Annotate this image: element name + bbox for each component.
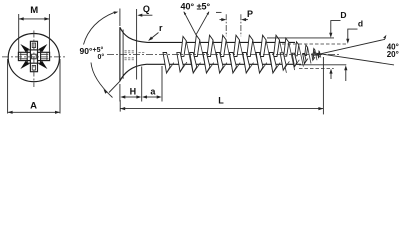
svg-text:20°: 20° — [387, 50, 399, 59]
thread blade 1 — [177, 36, 193, 72]
crest envelope top reference line — [267, 37, 334, 39]
label plus 5 deg — [93, 46, 104, 54]
dimension L line with arrows — [120, 107, 323, 110]
label d — [358, 19, 363, 29]
label H — [130, 86, 137, 96]
dimension M extension lines — [19, 14, 50, 52]
root bottom reference line — [299, 64, 346, 66]
thread root top line — [148, 41, 296, 43]
svg-text:A: A — [30, 100, 37, 111]
front view vertical centerline — [33, 31, 35, 88]
dimension a extension line — [161, 66, 163, 102]
svg-text:90°: 90° — [80, 46, 93, 56]
thread blade taper 2 — [292, 42, 303, 67]
recess slot inner lines — [19, 53, 48, 61]
head angle lower arc — [91, 63, 113, 98]
head angle upper arc — [84, 11, 119, 44]
recess wing lower-left — [20, 61, 29, 69]
thread run-out blade — [163, 53, 174, 74]
label D — [340, 10, 346, 20]
dimension P arrows — [220, 18, 248, 21]
recess wing upper-right — [39, 44, 48, 52]
dimension D bottom arrow — [329, 69, 332, 79]
svg-text:a: a — [150, 86, 156, 96]
dimension M line with arrows — [19, 17, 50, 20]
dimension A extension lines — [8, 59, 60, 114]
svg-text:L: L — [218, 96, 224, 106]
thread blade taper 1 — [280, 38, 294, 70]
dimension Q extension line — [119, 9, 121, 27]
label 20 deg tip — [387, 50, 399, 59]
head face inner line — [122, 30, 124, 79]
tip upper angle line — [314, 35, 387, 56]
thread blade 2 — [190, 35, 207, 73]
dimension A line with arrows — [8, 111, 60, 114]
svg-text:d: d — [358, 19, 363, 29]
label P — [247, 9, 253, 19]
svg-text:0°: 0° — [98, 53, 105, 61]
label A — [30, 100, 37, 111]
thread blade 3 — [203, 35, 220, 73]
dimension P lines — [226, 14, 241, 36]
dimension d leader and top arrow — [346, 29, 357, 44]
recess hidden dashes — [125, 51, 146, 60]
thread blade 6 — [243, 35, 260, 73]
dimension a arrows — [142, 95, 162, 98]
fillet r leader line — [148, 33, 158, 41]
thread blade taper 4 — [312, 49, 317, 61]
dimension Q arrow — [137, 14, 152, 17]
label Q — [143, 4, 150, 14]
thread blade taper 5 — [318, 51, 321, 57]
head face line — [119, 27, 121, 81]
svg-text:M: M — [30, 5, 38, 16]
recess center seat square — [32, 54, 37, 59]
dimension L left extension line — [119, 100, 121, 112]
tip lower angle line — [314, 53, 395, 65]
svg-text:Q: Q — [143, 4, 150, 14]
svg-text:r: r — [159, 23, 163, 33]
label 40 deg pm 5 — [181, 1, 211, 11]
front view horizontal centerline — [2, 56, 65, 58]
dimension H extension lines — [120, 67, 142, 102]
recess horizontal slot — [18, 52, 49, 60]
thread blade taper 3 — [303, 45, 311, 64]
thread blade 7 — [256, 35, 273, 73]
dimension d bottom arrow — [344, 65, 347, 81]
thread blade 5 — [229, 35, 246, 73]
screw axis centerline — [107, 54, 339, 56]
recess vertical slot — [30, 41, 37, 71]
label r — [159, 23, 163, 33]
dimension H arrows — [120, 95, 141, 98]
thread root bottom line — [148, 63, 302, 65]
head bottom flank curve — [120, 64, 148, 81]
recess bottom arm inner rect — [32, 65, 35, 70]
label 0 deg — [98, 53, 105, 61]
svg-text:P: P — [247, 9, 253, 19]
label L — [218, 96, 224, 106]
crest envelope bottom dashed line — [299, 67, 334, 69]
head top flank curve — [120, 27, 148, 42]
thread angle dash — [216, 11, 222, 13]
dimension D leader and top arrow — [329, 21, 340, 38]
recess hidden line (depth) — [136, 9, 138, 80]
recess top arm inner rect — [32, 43, 35, 48]
dimension L right extension line — [322, 57, 324, 114]
thread angle V lines — [184, 11, 210, 35]
svg-text:D: D — [340, 10, 346, 20]
label a — [150, 86, 156, 96]
root top dashed reference line — [282, 43, 348, 45]
label M — [30, 5, 38, 16]
recess wing upper-left — [20, 44, 29, 52]
head angle extension line — [109, 81, 121, 93]
thread blade 8 — [269, 35, 286, 73]
label 90 deg — [80, 46, 93, 56]
screw tip point — [317, 53, 323, 56]
label 40 deg tip — [387, 43, 399, 52]
thread blade 4 — [216, 35, 233, 73]
svg-text:H: H — [130, 86, 137, 96]
recess wing lower-right — [39, 61, 48, 69]
recess center square — [27, 50, 40, 63]
svg-text:+5°: +5° — [93, 46, 104, 54]
head outline (front view) — [8, 34, 59, 82]
svg-text:40° ±5°: 40° ±5° — [181, 1, 211, 11]
